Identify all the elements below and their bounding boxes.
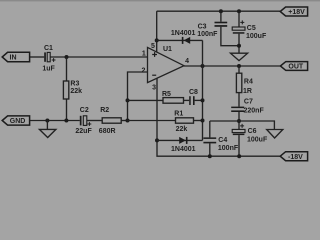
node C3 top [219, 9, 223, 13]
wire R1 left [128, 120, 176, 122]
capacitor C6 [232, 124, 268, 156]
resistor R3 [63, 81, 82, 99]
svg-text:C1: C1 [44, 45, 53, 52]
wire pin3 and bottom rail [157, 78, 280, 156]
svg-text:C2: C2 [80, 107, 89, 114]
wire C7 to node [238, 112, 240, 129]
wire input to C1 [30, 56, 45, 58]
svg-text:1: 1 [142, 50, 146, 57]
capacitor C4 [203, 121, 238, 156]
wire ground right [239, 121, 274, 129]
node C7/C6/C4 junction [237, 119, 241, 123]
tag GND [2, 116, 29, 125]
svg-text:100uF: 100uF [246, 33, 267, 40]
svg-text:R5: R5 [162, 91, 171, 98]
svg-text:R1: R1 [174, 111, 183, 118]
wire C8 to node [195, 99, 203, 101]
node C5 top [237, 9, 241, 13]
svg-text:U1: U1 [163, 46, 172, 53]
wire R4 top [238, 66, 240, 73]
tag -18V [280, 152, 307, 161]
wire top rail +18V [157, 10, 281, 12]
svg-text:1N4001: 1N4001 [171, 146, 196, 153]
wire R3 top [66, 57, 68, 81]
tag +18V [280, 7, 307, 16]
svg-text:100uF: 100uF [247, 136, 268, 143]
svg-text:R3: R3 [70, 81, 79, 88]
svg-text:22k: 22k [176, 126, 188, 133]
resistor R4 [236, 73, 253, 95]
capacitor C1 [42, 45, 55, 73]
capacitor C3 [197, 11, 239, 46]
svg-text:1uF: 1uF [42, 66, 55, 73]
svg-text:R2: R2 [100, 107, 109, 114]
node input junction [65, 55, 69, 59]
node feedback junction [126, 98, 130, 102]
svg-text:22k: 22k [70, 88, 82, 95]
capacitor C7 [231, 99, 264, 115]
wire inverting input [128, 72, 148, 121]
wire feedback vertical [202, 40, 204, 140]
svg-text:2: 2 [142, 67, 146, 74]
wire pin5 vertical [156, 11, 158, 52]
wire R2 to node [121, 120, 127, 122]
svg-text:680R: 680R [99, 128, 116, 135]
diode D1 1N4001 top [171, 30, 196, 44]
node C4 bottom [208, 154, 212, 158]
svg-text:100nF: 100nF [197, 31, 218, 38]
svg-text:3: 3 [152, 84, 156, 91]
wire top diode [157, 39, 203, 41]
svg-text:+18V: +18V [288, 9, 305, 16]
svg-text:100nF: 100nF [218, 145, 239, 152]
svg-text:C5: C5 [247, 25, 256, 32]
node R1/R2 junction [126, 119, 130, 123]
wire output [184, 65, 280, 67]
diode D2 1N4001 bottom [171, 137, 196, 153]
node diode bottom left [155, 138, 159, 142]
svg-text:-18V: -18V [288, 154, 303, 161]
wire R3 bottom [66, 99, 68, 121]
resistor R1 [174, 111, 193, 133]
node output/feedback [201, 64, 205, 68]
svg-text:C6: C6 [248, 128, 257, 135]
svg-text:C7: C7 [244, 99, 253, 106]
tag IN [2, 52, 29, 61]
ground left [39, 121, 56, 138]
wire feedback to R5 [128, 99, 164, 101]
svg-text:1R: 1R [243, 88, 252, 95]
wire R1 right [194, 120, 204, 122]
node GND junction [45, 119, 49, 123]
svg-text:4: 4 [185, 58, 189, 65]
wire C4 horizontal [210, 120, 239, 122]
op-amp U1 [142, 43, 190, 91]
resistor R5 [162, 91, 184, 103]
node pin5 junction [155, 38, 159, 42]
node output/R4 [237, 64, 241, 68]
ground middle [231, 53, 248, 60]
capacitor C5 [232, 11, 267, 53]
capacitor C2 [75, 107, 92, 135]
svg-text:C8: C8 [189, 89, 198, 96]
node R1 right [201, 119, 205, 123]
node C8 right [201, 98, 205, 102]
wire R5 to C8 [184, 99, 190, 101]
node C3/C5 junction [237, 44, 241, 48]
node C6 bottom [237, 154, 241, 158]
tag OUT [280, 62, 307, 71]
svg-text:220nF: 220nF [244, 108, 265, 115]
wire bottom diode [157, 139, 203, 141]
svg-text:C3: C3 [198, 23, 207, 30]
svg-text:OUT: OUT [288, 64, 304, 71]
svg-text:R4: R4 [244, 78, 253, 85]
svg-text:C4: C4 [218, 137, 227, 144]
wire GND rail [30, 120, 80, 122]
node R3 bottom junction [64, 119, 68, 123]
svg-text:1N4001: 1N4001 [171, 30, 196, 37]
svg-text:IN: IN [10, 55, 17, 62]
ground right [267, 130, 283, 139]
svg-text:GND: GND [10, 118, 26, 125]
wire C1 to op-amp pin 1 [50, 56, 148, 58]
resistor R2 [99, 107, 121, 135]
svg-text:5: 5 [151, 43, 155, 50]
wire R4 to C7 [238, 93, 240, 107]
svg-text:22uF: 22uF [75, 128, 92, 135]
wire C2 to R2 [87, 120, 102, 122]
capacitor C8 [189, 89, 198, 105]
